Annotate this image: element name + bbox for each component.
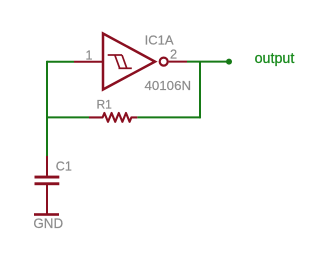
pin number label 2 <box>170 47 177 62</box>
svg-text:GND: GND <box>33 216 63 231</box>
inverter IC1A: hysteresis symbol inside triangle <box>108 55 132 68</box>
junction dot at output label attachment <box>226 59 232 65</box>
wire: resistor right to vertical riser <box>137 116 200 118</box>
svg-text:2: 2 <box>170 47 177 62</box>
ground symbol bar <box>34 213 59 216</box>
label: GND net name <box>33 216 63 231</box>
pin 2 of IC1A: output pin line <box>169 61 187 63</box>
wire: output net horizontal segment <box>187 61 229 63</box>
pin 1 of IC1A: input pin line <box>74 61 103 63</box>
svg-text:1: 1 <box>86 49 93 63</box>
wire: feedback branch horizontal to resistor left <box>47 116 89 118</box>
capacitor C1: top pin line <box>46 156 48 176</box>
label: R1 reference designator <box>97 98 113 112</box>
wire: vertical riser from resistor to output net <box>199 62 201 119</box>
svg-text:C1: C1 <box>56 160 72 174</box>
inverter IC1A: inverting output bubble <box>160 58 168 66</box>
wire: left vertical segment down to capacitor <box>46 61 48 157</box>
capacitor C1: top plate <box>35 176 60 179</box>
svg-text:IC1A: IC1A <box>145 33 174 48</box>
label: output net name <box>255 51 295 67</box>
svg-text:40106N: 40106N <box>145 78 192 93</box>
capacitor C1: bottom plate <box>35 182 60 185</box>
resistor R1 zigzag body with pin stubs <box>89 113 137 122</box>
pin number label 1 <box>86 49 93 63</box>
svg-text:R1: R1 <box>97 98 113 112</box>
capacitor C1: bottom pin line down to ground <box>46 185 48 214</box>
wire: net from pin 1 to feedback node, horizontal top segment <box>47 61 74 63</box>
inverter IC1A: Schmitt-trigger triangle body <box>103 34 155 90</box>
label: 40106N part value <box>145 78 192 93</box>
label: IC1A reference designator <box>145 33 174 48</box>
label: C1 reference designator <box>56 160 72 174</box>
svg-text:output: output <box>255 51 295 67</box>
